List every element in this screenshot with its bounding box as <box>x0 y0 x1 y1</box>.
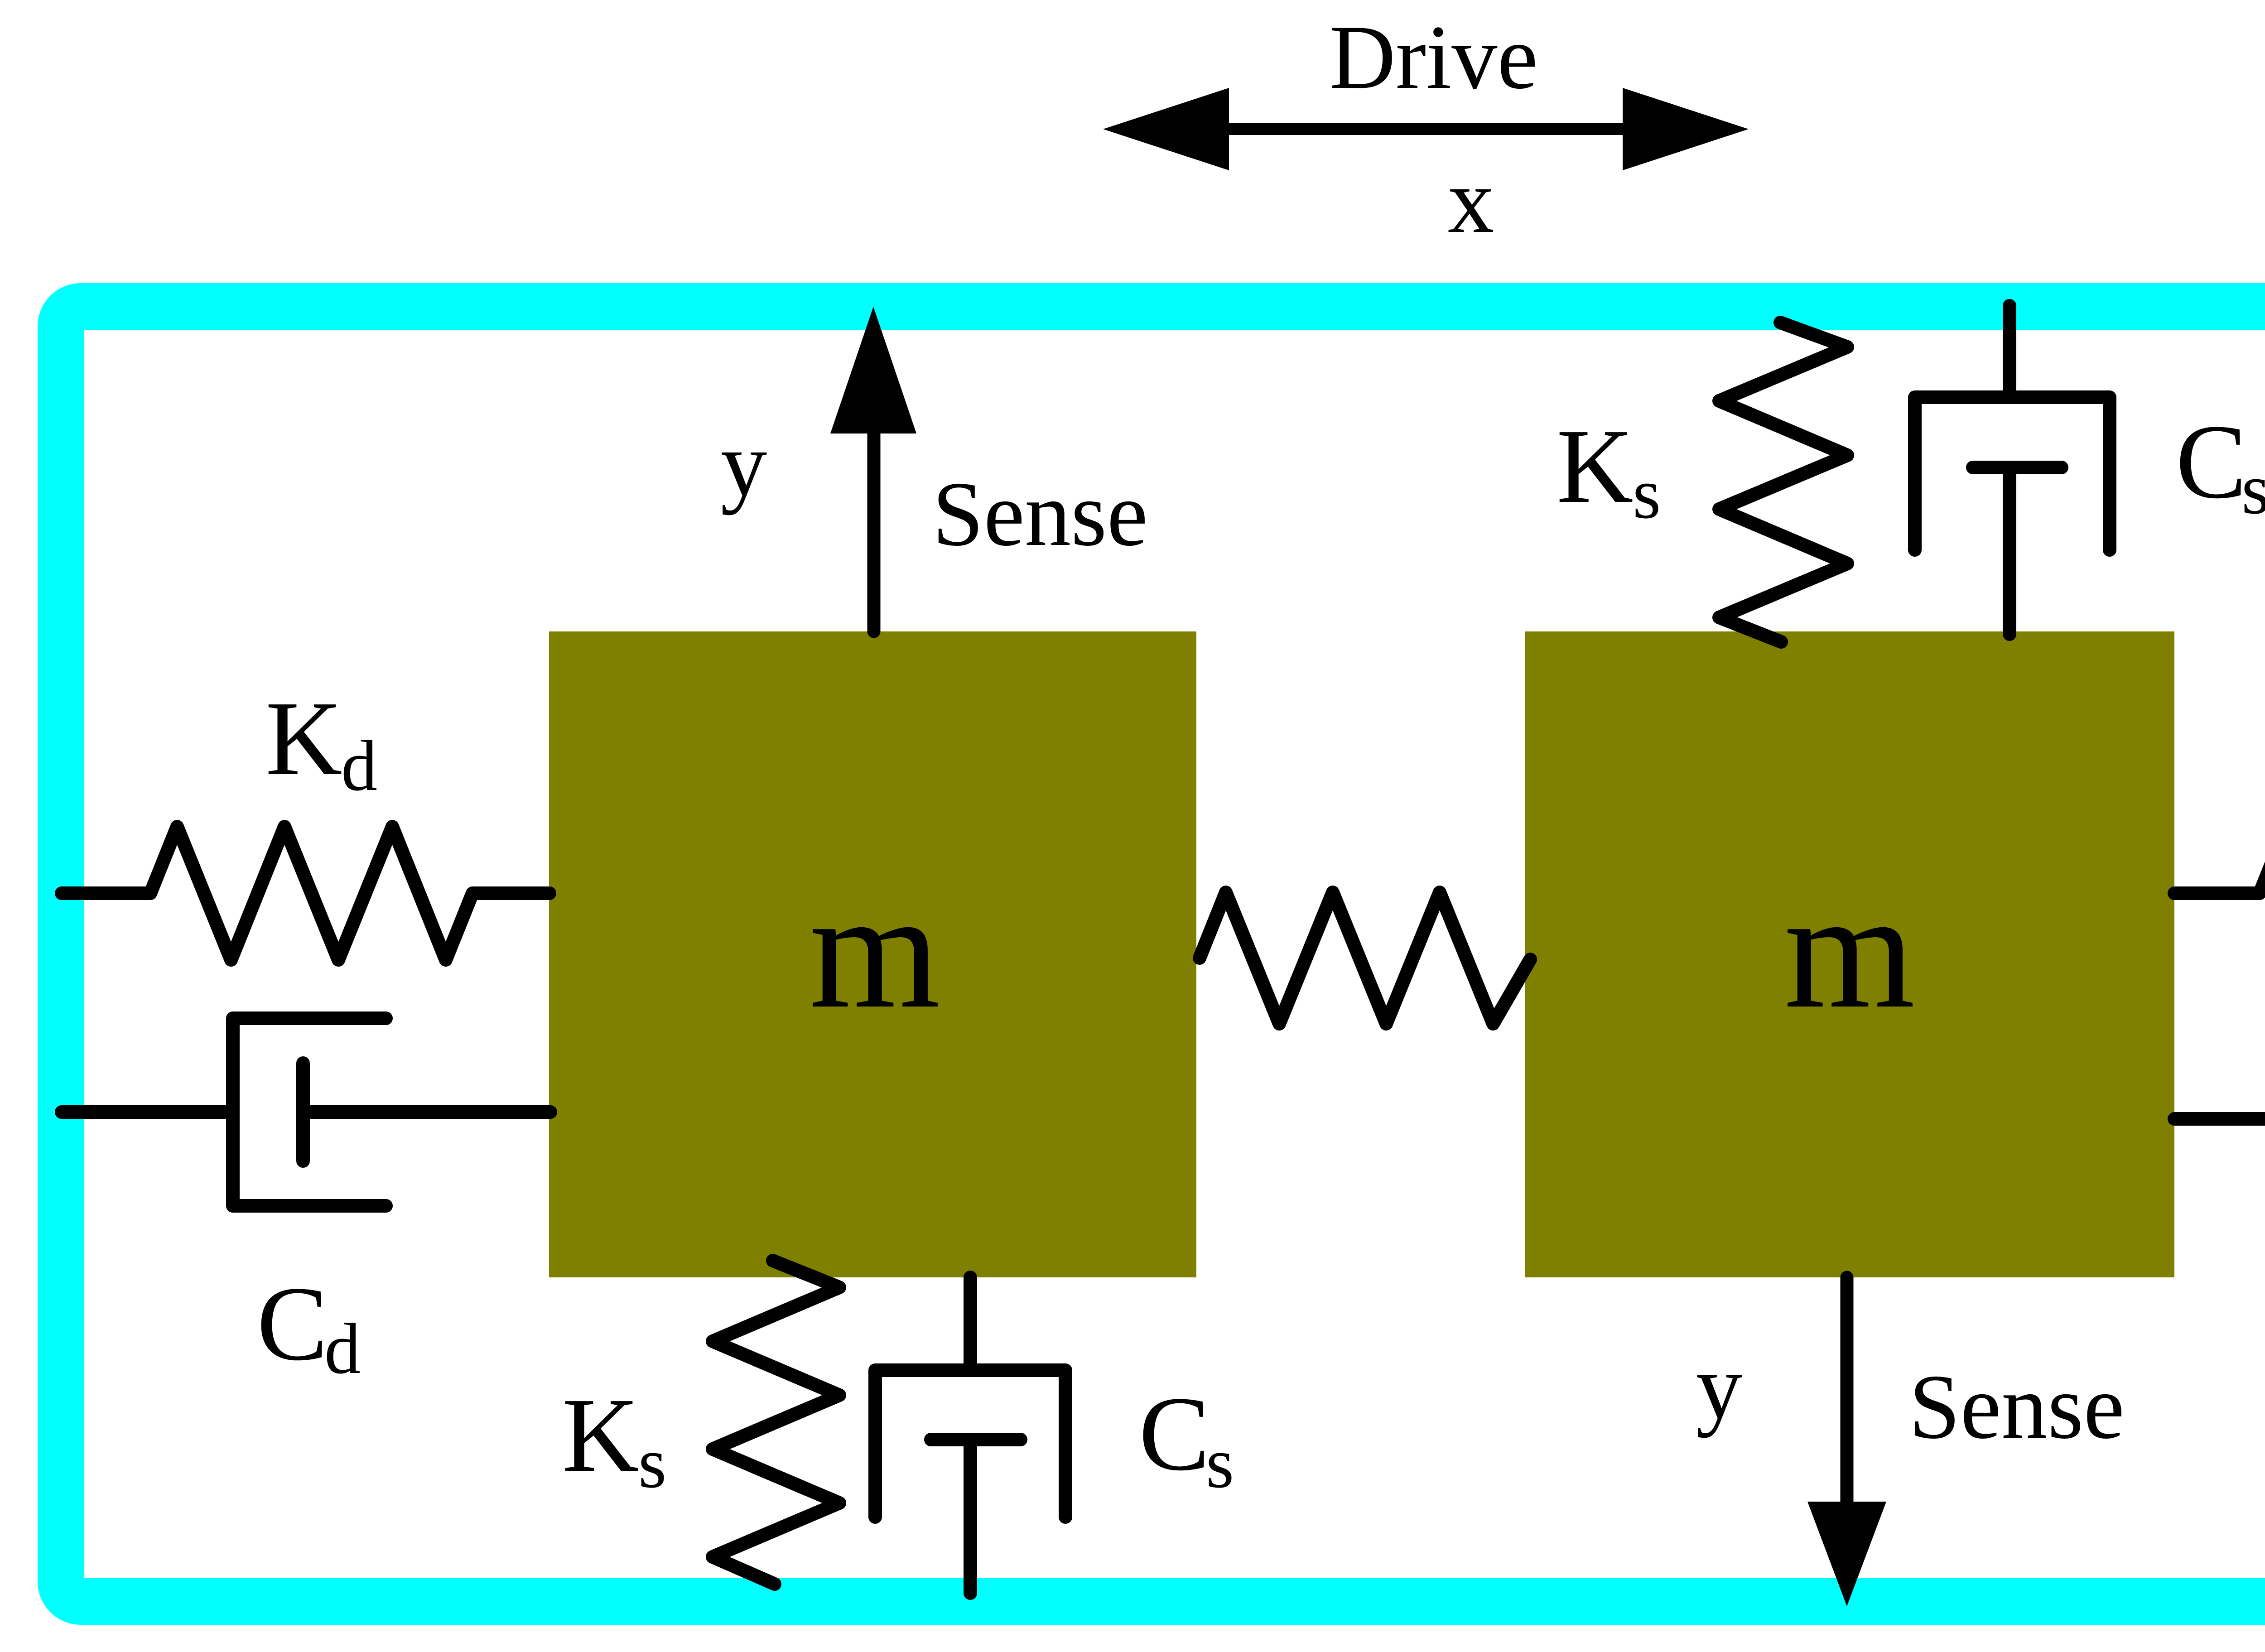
svg-text:y: y <box>721 413 767 515</box>
svg-text:s: s <box>1633 453 1661 534</box>
svg-text:Sense: Sense <box>932 463 1148 565</box>
svg-text:s: s <box>638 1422 666 1503</box>
svg-text:y: y <box>1696 1335 1743 1438</box>
svg-text:K: K <box>265 679 342 797</box>
svg-text:K: K <box>1557 407 1634 525</box>
svg-text:s: s <box>1206 1422 1234 1503</box>
svg-text:Sense: Sense <box>1909 1356 2125 1458</box>
svg-text:Drive: Drive <box>1330 6 1538 108</box>
svg-text:K: K <box>562 1376 639 1494</box>
svg-text:s: s <box>2241 448 2265 529</box>
svg-text:C: C <box>257 1265 328 1382</box>
svg-text:m: m <box>1784 857 1915 1043</box>
svg-text:C: C <box>1139 1375 1210 1493</box>
svg-text:d: d <box>324 1308 361 1389</box>
svg-text:C: C <box>2176 403 2247 520</box>
svg-text:d: d <box>341 725 377 806</box>
svg-text:x: x <box>1448 149 1494 252</box>
svg-text:m: m <box>809 857 940 1043</box>
